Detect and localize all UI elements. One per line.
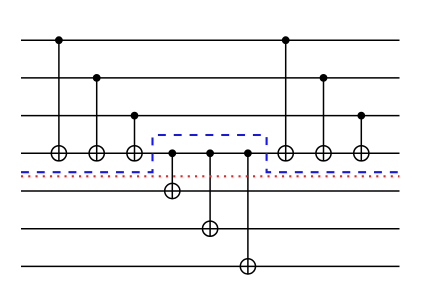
wire q3 [21,152,400,154]
CNOT8 target on q3 [316,146,331,161]
wire q4 [21,190,400,192]
CNOT9 wire q2->q3 [360,116,362,162]
CNOT2 wire q1->q3 [96,78,98,162]
CNOT1 wire q0->q3 [58,40,60,161]
CNOT7 wire q0->q3 [285,40,287,161]
CNOT7 target on q3 [278,146,293,161]
CNOT8 control on q1 [320,74,328,82]
CNOT5 target on q5 [203,221,218,236]
wire q0 [21,39,400,41]
CNOT9 control on q2 [357,112,365,120]
CNOT4 target on q4 [165,183,180,198]
CNOT9 target on q3 [354,146,369,161]
CNOT1 control on q0 [55,36,63,44]
CNOT3 target on q3 [127,146,142,161]
CNOT3 control on q2 [131,112,139,120]
wire q1 [21,77,400,79]
CNOT2 target on q3 [89,146,104,161]
CNOT3 wire q2->q3 [134,116,136,162]
CNOT7 control on q0 [282,36,290,44]
CNOT6 target on q6 [240,259,255,274]
CNOT8 wire q1->q3 [323,78,325,162]
CNOT2 control on q1 [93,74,101,82]
CNOT4 control on q3 [168,149,176,157]
CNOT1 target on q3 [51,146,66,161]
red dotted partition line [21,175,400,177]
blue dashed partition with box bump around middle controls [21,135,400,172]
wire q6 [21,265,400,267]
wire q5 [21,228,400,230]
CNOT6 wire q3->q6 [247,153,249,274]
wire q2 [21,115,400,117]
CNOT5 control on q3 [206,149,214,157]
CNOT4 wire q3->q4 [171,153,173,199]
CNOT5 wire q3->q5 [209,153,211,237]
CNOT6 control on q3 [244,149,252,157]
